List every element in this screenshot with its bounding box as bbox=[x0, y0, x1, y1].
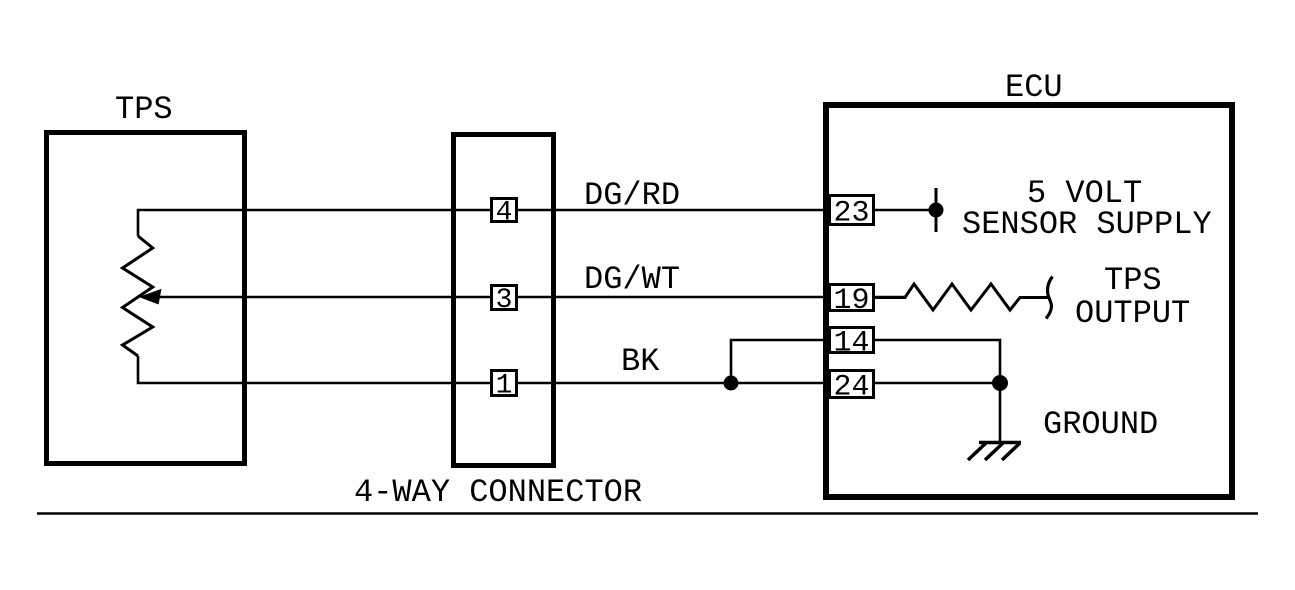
svg-text:ECU: ECU bbox=[1005, 69, 1063, 106]
svg-text:GROUND: GROUND bbox=[1043, 406, 1158, 443]
svg-text:19: 19 bbox=[833, 284, 869, 318]
connector pin 3 box bbox=[492, 286, 517, 310]
svg-text:BK: BK bbox=[621, 343, 660, 380]
junction dot BK wire / pin 14 branch bbox=[724, 376, 739, 391]
svg-text:3: 3 bbox=[496, 285, 513, 316]
curly continuation symbol at TPS output bbox=[1046, 277, 1053, 319]
connector pin 1 box bbox=[492, 371, 517, 396]
wire ground junction to ground symbol bbox=[999, 383, 1002, 442]
ECU pin 19 box bbox=[830, 285, 874, 311]
resistor (TPS output load) bbox=[874, 284, 1048, 310]
wiper arrow bbox=[141, 290, 161, 304]
svg-text:DG/WT: DG/WT bbox=[584, 261, 680, 298]
svg-text:23: 23 bbox=[833, 196, 869, 230]
svg-text:OUTPUT: OUTPUT bbox=[1075, 295, 1190, 332]
4-way connector box bbox=[454, 135, 554, 466]
wire ECU pin 14 to ground junction bbox=[874, 340, 1000, 383]
potentiometer (TPS sensor element) bbox=[123, 236, 153, 356]
wire DG/WT (wiper to connector pin 3 to ECU pin 19) bbox=[144, 296, 905, 299]
ECU pin 14 box bbox=[830, 328, 874, 353]
svg-text:TPS: TPS bbox=[115, 91, 173, 128]
svg-text:4: 4 bbox=[496, 198, 513, 229]
wire BK (TPS pin to connector pin 1 to ECU pin 24) bbox=[138, 356, 1000, 383]
ECU box bbox=[826, 105, 1232, 497]
wire DG/RD (TPS pin to connector pin 4 to ECU pin 23) bbox=[138, 210, 936, 236]
ECU pin 23 box bbox=[830, 196, 874, 225]
svg-text:24: 24 bbox=[833, 370, 869, 404]
svg-text:14: 14 bbox=[833, 326, 869, 360]
wire branch to ECU pin 14 (left loop) bbox=[731, 340, 874, 383]
TPS box bbox=[47, 133, 245, 464]
svg-text:DG/RD: DG/RD bbox=[584, 177, 680, 214]
ground symbol bbox=[968, 443, 1021, 461]
svg-text:4-WAY CONNECTOR: 4-WAY CONNECTOR bbox=[354, 474, 642, 511]
svg-text:1: 1 bbox=[496, 371, 513, 402]
junction dot ground node bbox=[992, 375, 1008, 391]
ECU pin 24 box bbox=[830, 371, 874, 398]
connector pin 4 box bbox=[492, 199, 517, 222]
bottom rule bbox=[37, 512, 1258, 515]
junction dot at 5 volt terminal bbox=[929, 203, 944, 218]
svg-text:SENSOR SUPPLY: SENSOR SUPPLY bbox=[962, 206, 1212, 243]
5 volt supply terminal stub bbox=[935, 188, 938, 232]
svg-text:TPS: TPS bbox=[1104, 262, 1162, 299]
